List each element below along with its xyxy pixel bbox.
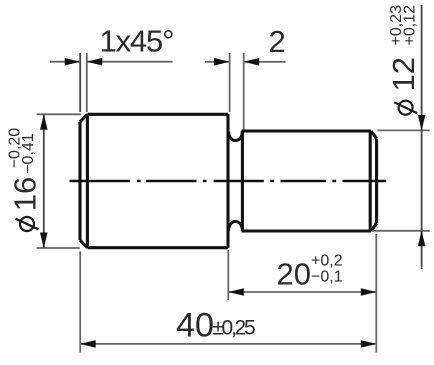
arrow left: [80, 340, 96, 348]
arrow pointing left at chamfer edge: [87, 58, 103, 66]
dimension 1x45 chamfer: [50, 24, 175, 113]
top undercut groove: [229, 132, 243, 141]
extension line bottom: [372, 230, 430, 232]
label dia16 with tolerances, rotated: [6, 128, 42, 231]
diameter symbol: [399, 101, 413, 115]
label dia12 with tolerances, rotated: [386, 5, 421, 115]
svg-text:40: 40: [176, 306, 214, 344]
svg-text:12: 12: [386, 57, 421, 91]
small cylinder bottom edge: [242, 229, 372, 232]
extension line shoulder: [229, 53, 231, 112]
dimension line right tail: [244, 61, 286, 63]
dimension line: [80, 343, 376, 345]
extension line top: [37, 113, 82, 115]
small cylinder top edge: [242, 129, 372, 132]
dimension line upper: [421, 5, 423, 130]
extension line top: [378, 129, 430, 131]
right end face: [375, 139, 378, 224]
dimension 20 length: [228, 234, 376, 353]
arrow pointing right at left face: [65, 58, 81, 66]
arrow right: [361, 340, 377, 348]
arrow pointing right at shoulder: [214, 58, 230, 66]
extension line shoulder: [227, 250, 229, 300]
arrow right: [361, 288, 377, 296]
svg-text:−0,41: −0,41: [20, 133, 37, 174]
extension line left: [79, 252, 81, 353]
left chamfer edge line: [86, 114, 89, 247]
dimension dia 12: [372, 5, 430, 269]
dimension line: [43, 114, 45, 248]
extension line left face: [79, 53, 81, 112]
svg-text:1x45°: 1x45°: [100, 24, 175, 59]
svg-text:20: 20: [277, 256, 311, 291]
diameter symbol: [20, 217, 34, 231]
right bottom chamfer: [371, 223, 377, 231]
dimension line left tail: [50, 61, 80, 63]
shoulder face: [226, 114, 229, 247]
arrow up: [40, 114, 48, 130]
dimension line lower tail: [421, 231, 423, 269]
dimension line: [228, 291, 376, 293]
dimension 2 groove width: [205, 24, 286, 129]
arrow pointing left at groove edge: [244, 58, 260, 66]
svg-text:16: 16: [7, 177, 42, 211]
part outline: stepped shaft: [80, 114, 377, 247]
dimension dia 16: [6, 114, 81, 248]
bottom undercut groove: [229, 222, 243, 231]
right chamfer edge line: [369, 131, 372, 231]
extension line right end: [375, 234, 377, 353]
arrow up at bottom extension: [418, 231, 426, 247]
extension line groove edge: [243, 53, 245, 130]
right top chamfer: [371, 131, 377, 139]
centerline (axis, dash-dot): [70, 180, 387, 182]
svg-text:+0,2: +0,2: [311, 253, 343, 270]
extension line chamfer edge: [86, 53, 88, 112]
left end face: [78, 122, 81, 240]
left top chamfer 1x45: [80, 114, 87, 122]
svg-text:−0,1: −0,1: [311, 269, 343, 286]
svg-text:2: 2: [269, 24, 286, 59]
groove edge line: [241, 131, 244, 231]
arrow down at top extension: [418, 115, 426, 130]
dimension line left tail: [205, 61, 230, 63]
big cylinder bottom edge: [87, 246, 228, 249]
dimension line right tail: [87, 61, 173, 63]
dimension line middle: [421, 130, 423, 230]
dimension 40 overall length: [80, 252, 376, 353]
svg-text:+0,12: +0,12: [402, 5, 419, 46]
extension line bottom: [37, 247, 80, 249]
left bottom chamfer 1x45: [80, 240, 87, 248]
arrow down: [40, 233, 48, 249]
svg-text:±0,25: ±0,25: [212, 316, 256, 339]
big cylinder top edge: [87, 113, 228, 116]
arrow left: [228, 288, 244, 296]
